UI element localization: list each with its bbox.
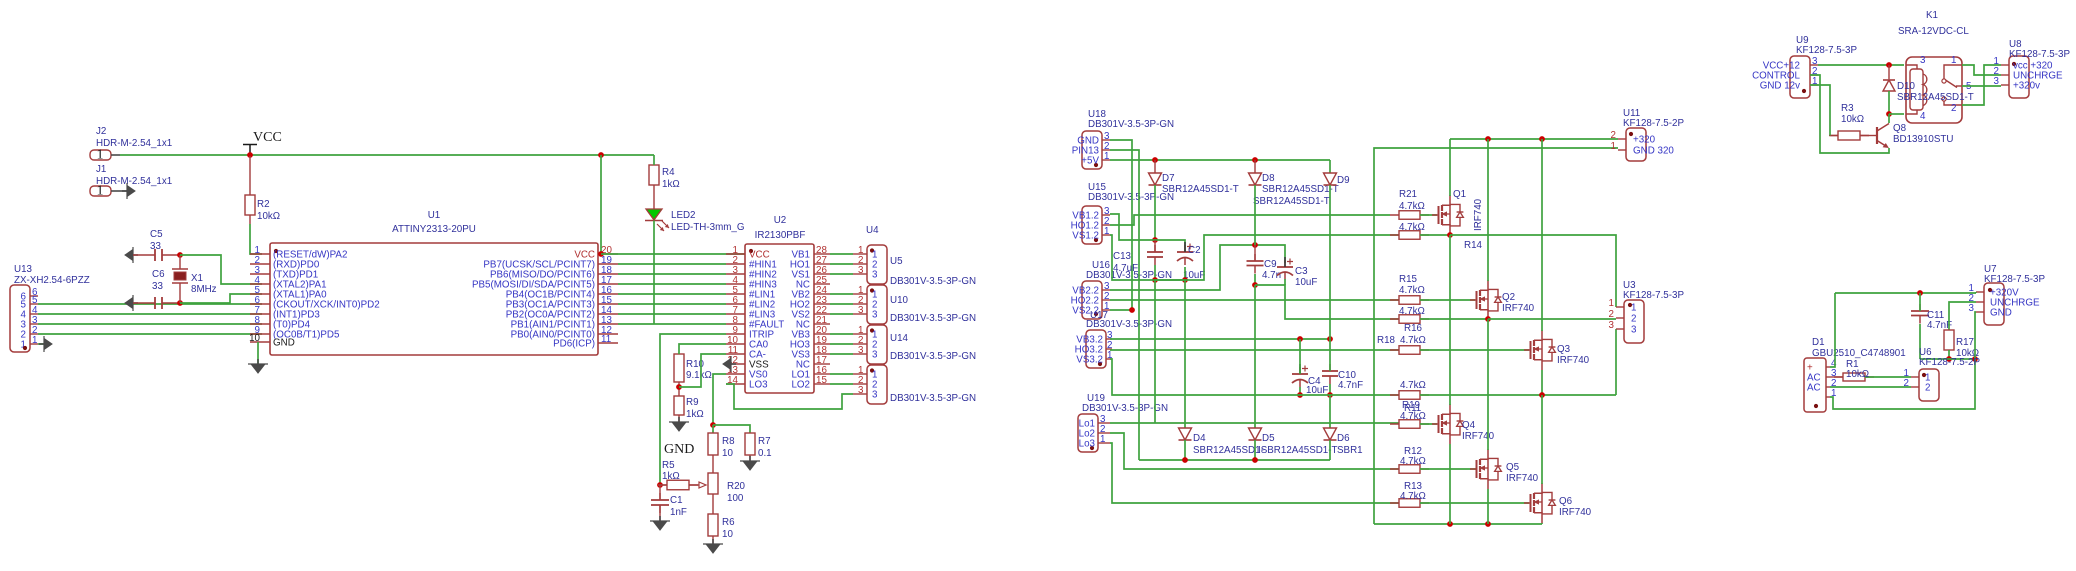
- wire Lo2 to R12: [1110, 433, 1399, 469]
- U19 pin 3 Lo1: [1098, 422, 1110, 424]
- relay K1 body: [1906, 57, 1962, 123]
- wire R1 to U6-1: [1865, 376, 1911, 378]
- wire R16 to phase2: [1420, 318, 1488, 320]
- wire VB2.2 to C9/C3: [1110, 245, 1285, 290]
- D1 pin 3 AC: [1826, 376, 1830, 378]
- pin stub U13-4: [30, 313, 38, 315]
- svg-text:Q3: Q3: [1557, 344, 1571, 355]
- wire GND320 column: [1374, 148, 1618, 524]
- U1 pin 1 (RESET/dW)PA2: [250, 253, 270, 255]
- wire Q5 drain: [1487, 319, 1489, 450]
- ground under R6: [706, 544, 720, 553]
- capacitor C11: [1919, 304, 1921, 311]
- U2 pin 15 LO2: [814, 383, 830, 385]
- U17 pin 3 VB3.2: [1106, 338, 1112, 340]
- pin stub 3: [853, 353, 867, 355]
- svg-text:LED2: LED2: [671, 210, 696, 221]
- svg-text:4.7kΩ: 4.7kΩ: [1400, 491, 1426, 502]
- wire to D9: [1329, 160, 1331, 173]
- svg-text:C9: C9: [1264, 259, 1277, 270]
- junction VS2 node: [1252, 282, 1258, 288]
- svg-text:J2: J2: [96, 126, 106, 137]
- resistor R4: [649, 165, 659, 185]
- wire HO2.2 to R15: [1110, 299, 1399, 301]
- junction phase3: [1539, 392, 1545, 398]
- connector U17: [1086, 330, 1106, 368]
- svg-text:DB301V-3.5-3P-GN: DB301V-3.5-3P-GN: [890, 313, 976, 324]
- U2 pin 5 #LIN1: [726, 293, 745, 295]
- svg-text:KF128-7.5-2P: KF128-7.5-2P: [1919, 357, 1980, 368]
- svg-text:3: 3: [1631, 325, 1637, 336]
- U1 pin 3 (TXD)PD1: [250, 273, 270, 275]
- svg-text:U5: U5: [890, 256, 903, 267]
- capacitor C10: [1329, 364, 1331, 371]
- U8 pin 1 vcc +320: [2001, 64, 2009, 66]
- svg-text:R5: R5: [662, 460, 675, 471]
- U2 pin 14 LO3: [726, 383, 745, 385]
- U2 pin 4 #HIN3: [726, 283, 745, 285]
- svg-text:VS3.2: VS3.2: [1076, 355, 1103, 366]
- pin stub 3: [853, 273, 867, 275]
- U3 pin 2: [1616, 317, 1624, 319]
- wire U2 to U4 row y=374: [830, 373, 853, 375]
- wire U2 to U4 row y=334: [830, 333, 853, 335]
- wire XTAL2 net: [180, 255, 262, 284]
- svg-text:SBR12A45SD1-T: SBR12A45SD1-T: [1162, 184, 1239, 195]
- junction rail Q2: [1485, 136, 1491, 142]
- wire to D1 pin1: [1830, 359, 1975, 409]
- wire D5 cathode: [1254, 440, 1256, 460]
- wire relay-2 to U8-1: [1962, 65, 2001, 105]
- svg-text:U1: U1: [428, 210, 441, 221]
- svg-text:4.7kΩ: 4.7kΩ: [1399, 222, 1425, 233]
- svg-text:Q4: Q4: [1462, 420, 1476, 431]
- U1 pin 6 (CKOUT/XCK/INT0)PD2: [250, 303, 270, 305]
- svg-text:KF128-7.5-3P: KF128-7.5-3P: [2009, 49, 2070, 60]
- svg-text:3: 3: [872, 390, 878, 401]
- U2 pin 25 NC: [814, 283, 830, 285]
- svg-text:K1: K1: [1926, 10, 1938, 21]
- U2 pin 21 NC: [814, 323, 830, 325]
- svg-text:R17: R17: [1956, 337, 1974, 348]
- U2 pin 9 ITRIP: [726, 333, 745, 335]
- wire U2 to U4 row y=354: [830, 353, 853, 355]
- U1 pin 20 VCC: [598, 253, 618, 255]
- resistor R7: [745, 433, 755, 455]
- wire CA0 to R10: [679, 344, 726, 354]
- svg-text:IRF740: IRF740: [1506, 473, 1539, 484]
- svg-text:C3: C3: [1295, 266, 1308, 277]
- wire U9-1 to R3: [1810, 85, 1830, 136]
- junction VCC-R2: [247, 152, 253, 158]
- resistor R8: [708, 433, 718, 455]
- svg-text:IRF740: IRF740: [1473, 198, 1484, 231]
- wire LO3 to U4 pin3: [726, 384, 853, 409]
- wire C11 bottom: [1919, 324, 1921, 359]
- svg-text:3: 3: [872, 350, 878, 361]
- U1 pin 10 GND: [250, 341, 270, 343]
- U1 pin 18 PB6(MISO/DO/PCINT6): [598, 273, 618, 275]
- connector U4 part4: [867, 365, 887, 404]
- connector J2: [90, 150, 111, 160]
- wire VS1.2 to phase1: [1110, 235, 1399, 280]
- svg-text:R14: R14: [1464, 240, 1483, 251]
- svg-text:D9: D9: [1337, 175, 1350, 186]
- svg-text:2: 2: [1925, 383, 1930, 394]
- wire VS1 row: [1155, 279, 1185, 281]
- U2 pin 6 #LIN2: [726, 303, 745, 305]
- U18 pin 2 PIN13: [1102, 149, 1110, 151]
- svg-text:3: 3: [872, 270, 878, 281]
- resistor R9: [674, 396, 684, 415]
- wire +320 rail: [1450, 138, 1618, 140]
- svg-text:C5: C5: [150, 229, 163, 240]
- svg-text:IR2130PBF: IR2130PBF: [755, 230, 806, 241]
- capacitor C9: [1254, 254, 1256, 261]
- svg-text:D5: D5: [1262, 433, 1275, 444]
- svg-text:ATTINY2313-20PU: ATTINY2313-20PU: [392, 224, 476, 235]
- svg-text:4.7uF: 4.7uF: [1113, 263, 1138, 274]
- connector J1: [90, 186, 111, 196]
- junction VS3-C10: [1327, 392, 1333, 398]
- wire U2 to U4 row y=344: [830, 343, 853, 345]
- connector U16: [1082, 281, 1102, 319]
- junction VB3-C4: [1297, 336, 1303, 342]
- U15 pin 1 VS1.2: [1102, 234, 1110, 236]
- svg-text:1: 1: [97, 148, 104, 163]
- resistor R21: [1390, 214, 1429, 216]
- U2 pin 17 NC: [814, 363, 830, 365]
- svg-text:3: 3: [872, 310, 878, 321]
- U11 pin 1 GND 320: [1618, 149, 1626, 151]
- U1 pin 13 PB1(AIN1/PCINT1): [598, 323, 618, 325]
- U1 pin 4 (XTAL2)PA1: [250, 283, 270, 285]
- wire ITRIP RC net: [660, 334, 726, 485]
- wire VS2 to R16: [1255, 285, 1399, 319]
- svg-text:1: 1: [1831, 388, 1836, 399]
- svg-text:R15: R15: [1399, 274, 1418, 285]
- svg-text:0.1: 0.1: [758, 448, 772, 459]
- ground under U1: [251, 364, 265, 373]
- svg-text:10uF: 10uF: [1295, 277, 1317, 288]
- connector U18: [1082, 131, 1102, 169]
- junction C2-D4: [1182, 277, 1188, 283]
- U11 pin 2 +320: [1618, 138, 1626, 140]
- svg-text:2: 2: [1951, 103, 1956, 114]
- junction R17-C11: [1946, 356, 1952, 362]
- U16 pin 1 VS2.2: [1102, 309, 1110, 311]
- capacitor C1: [659, 493, 661, 500]
- svg-text:SBR12A45SD1-T: SBR12A45SD1-T: [1897, 92, 1974, 103]
- junction VCC-U1pin20: [598, 152, 604, 158]
- transistor Q5: [1470, 468, 1477, 470]
- wire Q4 drain: [1449, 235, 1451, 405]
- svg-text:10kΩ: 10kΩ: [257, 211, 280, 222]
- svg-text:IRF740: IRF740: [1559, 507, 1592, 518]
- svg-text:33: 33: [150, 241, 161, 252]
- resistor R11: [1390, 423, 1429, 425]
- wire phase1 to U3 pin1: [1450, 235, 1616, 307]
- svg-text:HDR-M-2.54_1x1: HDR-M-2.54_1x1: [96, 176, 172, 187]
- svg-text:1: 1: [1100, 434, 1105, 445]
- U2 pin 18 VS3: [814, 353, 830, 355]
- U9 pin 3 VCC+12: [1810, 64, 1818, 66]
- svg-text:100: 100: [727, 493, 744, 504]
- wire relay-5 to U8-3: [1962, 85, 2001, 87]
- svg-text:AC: AC: [1807, 383, 1821, 394]
- resistor R14: [1390, 234, 1429, 236]
- ground at C6: [125, 298, 133, 309]
- svg-text:KF128-7.5-3P: KF128-7.5-3P: [1984, 274, 2045, 285]
- U1 pin 19 PB7(UCSK/SCL/PCINT7): [598, 263, 618, 265]
- diode D7: [1149, 173, 1162, 185]
- U9 pin 1 GND 12v: [1810, 84, 1818, 86]
- svg-text:8MHz: 8MHz: [191, 284, 217, 295]
- svg-text:+5V: +5V: [1081, 156, 1099, 167]
- wire R15 to Q2 gate: [1420, 299, 1475, 301]
- junction R10-R9-CA-: [676, 384, 682, 390]
- svg-text:U10: U10: [890, 295, 909, 306]
- junction Q4 source: [1447, 521, 1453, 527]
- junction +5V D8: [1252, 157, 1258, 163]
- svg-text:VS1.2: VS1.2: [1072, 231, 1099, 242]
- U15 pin 2 HO1.2: [1102, 224, 1110, 226]
- connector U6: [1919, 369, 1939, 401]
- transistor Q8: [1876, 127, 1878, 144]
- pin stub 1: [853, 253, 867, 255]
- wire Q3 drain: [1541, 139, 1543, 331]
- wire Q5 source: [1487, 489, 1489, 524]
- LED LED2: [646, 209, 662, 220]
- wire relay-1 to U8-2: [1962, 65, 2001, 75]
- U1 pin 16 PB4(OC1B/PCINT4): [598, 293, 618, 295]
- pin stub 1: [853, 333, 867, 335]
- svg-text:KF128-7.5-2P: KF128-7.5-2P: [1623, 118, 1684, 129]
- svg-text:U13: U13: [14, 264, 33, 275]
- svg-text:LO3: LO3: [749, 380, 768, 391]
- capacitor C6: [155, 297, 162, 309]
- wire to Q8 collector: [1888, 114, 1890, 123]
- svg-text:1kΩ: 1kΩ: [662, 471, 680, 482]
- ground at VSS pin: [726, 363, 731, 365]
- svg-text:KF128-7.5-3P: KF128-7.5-3P: [1796, 45, 1857, 56]
- svg-text:3: 3: [1609, 320, 1615, 331]
- connector U8: [2009, 56, 2029, 98]
- U2 pin 22 VS2: [814, 313, 830, 315]
- junction coil-Q8: [1886, 111, 1892, 117]
- capacitor C3: [1284, 260, 1286, 267]
- svg-text:33: 33: [152, 281, 163, 292]
- junction ITRIP-C1-R5: [657, 482, 663, 488]
- capacitor C13: [1154, 245, 1156, 252]
- svg-text:D7: D7: [1162, 173, 1175, 184]
- svg-text:GND 12v: GND 12v: [1760, 81, 1800, 92]
- U9 pin 2 CONTROL: [1810, 74, 1818, 76]
- svg-text:D1: D1: [1812, 337, 1825, 348]
- svg-text:C2: C2: [1188, 245, 1201, 256]
- svg-text:ISBR12A45SD1-T: ISBR12A45SD1-T: [1258, 445, 1338, 456]
- svg-text:GBU2510_C4748901: GBU2510_C4748901: [1812, 348, 1906, 359]
- svg-text:R6: R6: [722, 517, 735, 528]
- junction VB1 node: [1152, 237, 1158, 243]
- wire Q6 drain: [1541, 395, 1543, 484]
- svg-text:3: 3: [858, 265, 864, 276]
- svg-text:9.1kΩ: 9.1kΩ: [686, 370, 712, 381]
- transistor Q4: [1432, 423, 1439, 425]
- junction phase1: [1447, 232, 1453, 238]
- U2 pin 16 LO1: [814, 373, 830, 375]
- U1 pin 8 (T0)PD4: [250, 323, 270, 325]
- wire VCC vertical to U1 pin20: [600, 155, 602, 254]
- diode D8: [1249, 173, 1262, 185]
- svg-text:Q5: Q5: [1506, 462, 1520, 473]
- U8 pin 3 +320v: [2001, 84, 2009, 86]
- junction C5-X1: [177, 252, 183, 258]
- wire U2 to U4 row y=254: [830, 253, 853, 255]
- svg-text:3: 3: [858, 345, 864, 356]
- U18 pin 3 GND: [1102, 139, 1110, 141]
- wire U7-2 to R17: [1949, 302, 1976, 330]
- wire R11 to Q4 gate: [1420, 423, 1437, 425]
- junction GND-U7: [1972, 356, 1978, 362]
- U1 pin 11 PD6(ICP): [598, 342, 618, 344]
- pin stub 3: [853, 393, 867, 395]
- pin stub U13-1: [30, 343, 38, 345]
- svg-text:2: 2: [1631, 314, 1636, 325]
- svg-text:4.7kΩ: 4.7kΩ: [1399, 285, 1425, 296]
- svg-text:D10: D10: [1897, 81, 1916, 92]
- svg-text:DB301V-3.5-3P-GN: DB301V-3.5-3P-GN: [1086, 319, 1172, 330]
- wire C3 bottom: [1284, 279, 1286, 285]
- U2 pin 19 HO3: [814, 343, 830, 345]
- svg-text:+320v: +320v: [2013, 81, 2040, 92]
- wire to R8: [712, 425, 714, 433]
- svg-text:GND: GND: [273, 338, 295, 349]
- svg-text:R21: R21: [1399, 189, 1417, 200]
- svg-text:LED-TH-3mm_G: LED-TH-3mm_G: [671, 222, 744, 233]
- wire Q2 drain: [1487, 139, 1489, 281]
- U1 pin 9 (OC0B/T1)PD5: [250, 333, 270, 335]
- resistor R15: [1390, 299, 1429, 301]
- wire D8 cathode: [1254, 185, 1256, 245]
- resistor R13: [1390, 502, 1429, 504]
- transistor Q6: [1524, 502, 1531, 504]
- U3 pin 3: [1616, 328, 1624, 330]
- wire D5 anode col: [1254, 285, 1256, 428]
- wire C9 bottom: [1254, 274, 1256, 285]
- connector U19: [1078, 414, 1098, 452]
- wire phase2 to U3 pin2: [1488, 318, 1616, 320]
- connector U5: [867, 245, 887, 284]
- svg-text:2: 2: [1904, 378, 1909, 389]
- wire U1 to U2 row y=294: [618, 293, 726, 295]
- svg-text:1kΩ: 1kΩ: [662, 179, 680, 190]
- wire Q8 emitter to U9-2: [1810, 75, 1889, 153]
- svg-text:Q6: Q6: [1559, 496, 1573, 507]
- pin stub 2: [853, 303, 867, 305]
- transistor Q3: [1524, 349, 1531, 351]
- svg-text:DB301V-3.5-3P-GN: DB301V-3.5-3P-GN: [890, 276, 976, 287]
- U2 pin 13 VS0: [726, 373, 745, 375]
- ground at C5: [125, 250, 133, 261]
- IC U2 IR2130PBF: [745, 244, 814, 393]
- U2 pin 23 HO2: [814, 303, 830, 305]
- U2 pin 7 #LIN3: [726, 313, 745, 315]
- svg-text:IRF740: IRF740: [1557, 355, 1590, 366]
- svg-text:1: 1: [1104, 151, 1109, 162]
- wire VCC rail from J2 to R4: [120, 154, 654, 156]
- crystal X1: [172, 269, 188, 283]
- wire U2 to U4 row y=294: [830, 293, 853, 295]
- U16 pin 3 VB2.2: [1102, 289, 1110, 291]
- svg-text:GND: GND: [664, 442, 694, 457]
- svg-text:4.7kΩ: 4.7kΩ: [1399, 306, 1425, 317]
- pin stub 1: [853, 293, 867, 295]
- U6 pin 1: [1911, 376, 1919, 378]
- potentiometer R20: [708, 473, 718, 494]
- wire C2 bottom: [1184, 267, 1186, 280]
- svg-text:1nF: 1nF: [670, 507, 687, 518]
- pin stub J1-1: [111, 190, 127, 192]
- resistor R10: [674, 354, 684, 382]
- svg-text:1: 1: [32, 335, 37, 346]
- wire Q4 source: [1449, 444, 1451, 524]
- wire GND column: [1110, 140, 1132, 310]
- connector U7: [1984, 283, 2004, 325]
- wire R17 bottom: [1948, 350, 1950, 359]
- pin stub U13-6: [30, 295, 38, 297]
- junction VS2.2-GND col: [1129, 307, 1135, 313]
- svg-text:10kΩ: 10kΩ: [1846, 369, 1869, 380]
- svg-text:1: 1: [1611, 141, 1616, 152]
- wire U1 GND pin to ground: [257, 342, 259, 364]
- diode D10: [1888, 65, 1890, 79]
- U2 pin 27 HO1: [814, 263, 830, 265]
- svg-text:D4: D4: [1193, 433, 1206, 444]
- wire U2 to U4 row y=384: [830, 383, 853, 385]
- junction VS3-C4: [1297, 392, 1303, 398]
- wire phase3 row: [1420, 394, 1616, 396]
- pin stub U13-2: [30, 333, 38, 335]
- junction C11 top: [1917, 290, 1923, 296]
- svg-text:DB301V-3.5-3P-GN: DB301V-3.5-3P-GN: [890, 351, 976, 362]
- transistor Q1: [1432, 214, 1439, 216]
- U15 pin 3 VB1.2: [1102, 214, 1110, 216]
- wire D7 cathode: [1154, 185, 1156, 240]
- junction VB3-C10: [1327, 336, 1333, 342]
- wire D9 cathode col: [1329, 185, 1331, 339]
- svg-text:4.7kΩ: 4.7kΩ: [1400, 335, 1426, 346]
- ground under R9: [672, 422, 686, 431]
- svg-text:PD6(ICP): PD6(ICP): [553, 339, 595, 350]
- wire D10 anode: [1888, 91, 1890, 114]
- capacitor C5: [155, 249, 162, 261]
- svg-text:U2: U2: [774, 215, 787, 226]
- U17 pin 1 VS3.2: [1106, 358, 1112, 360]
- svg-text:KF128-7.5-3P: KF128-7.5-3P: [1623, 290, 1684, 301]
- U1 pin 15 PB3(OC1A/PCINT3): [598, 303, 618, 305]
- U1 pin 2 (RXD)PD0: [250, 263, 270, 265]
- resistor R19: [1390, 394, 1429, 396]
- wire C10 bottom: [1329, 384, 1331, 395]
- svg-text:GND: GND: [1990, 308, 2012, 319]
- U1 pin 5 (XTAL1)PA0: [250, 293, 270, 295]
- svg-text:IRF740: IRF740: [1502, 303, 1535, 314]
- junction rail Q3: [1539, 136, 1545, 142]
- U2 pin 3 #HIN2: [726, 273, 745, 275]
- svg-text:R4: R4: [662, 167, 675, 178]
- svg-text:R7: R7: [758, 436, 771, 447]
